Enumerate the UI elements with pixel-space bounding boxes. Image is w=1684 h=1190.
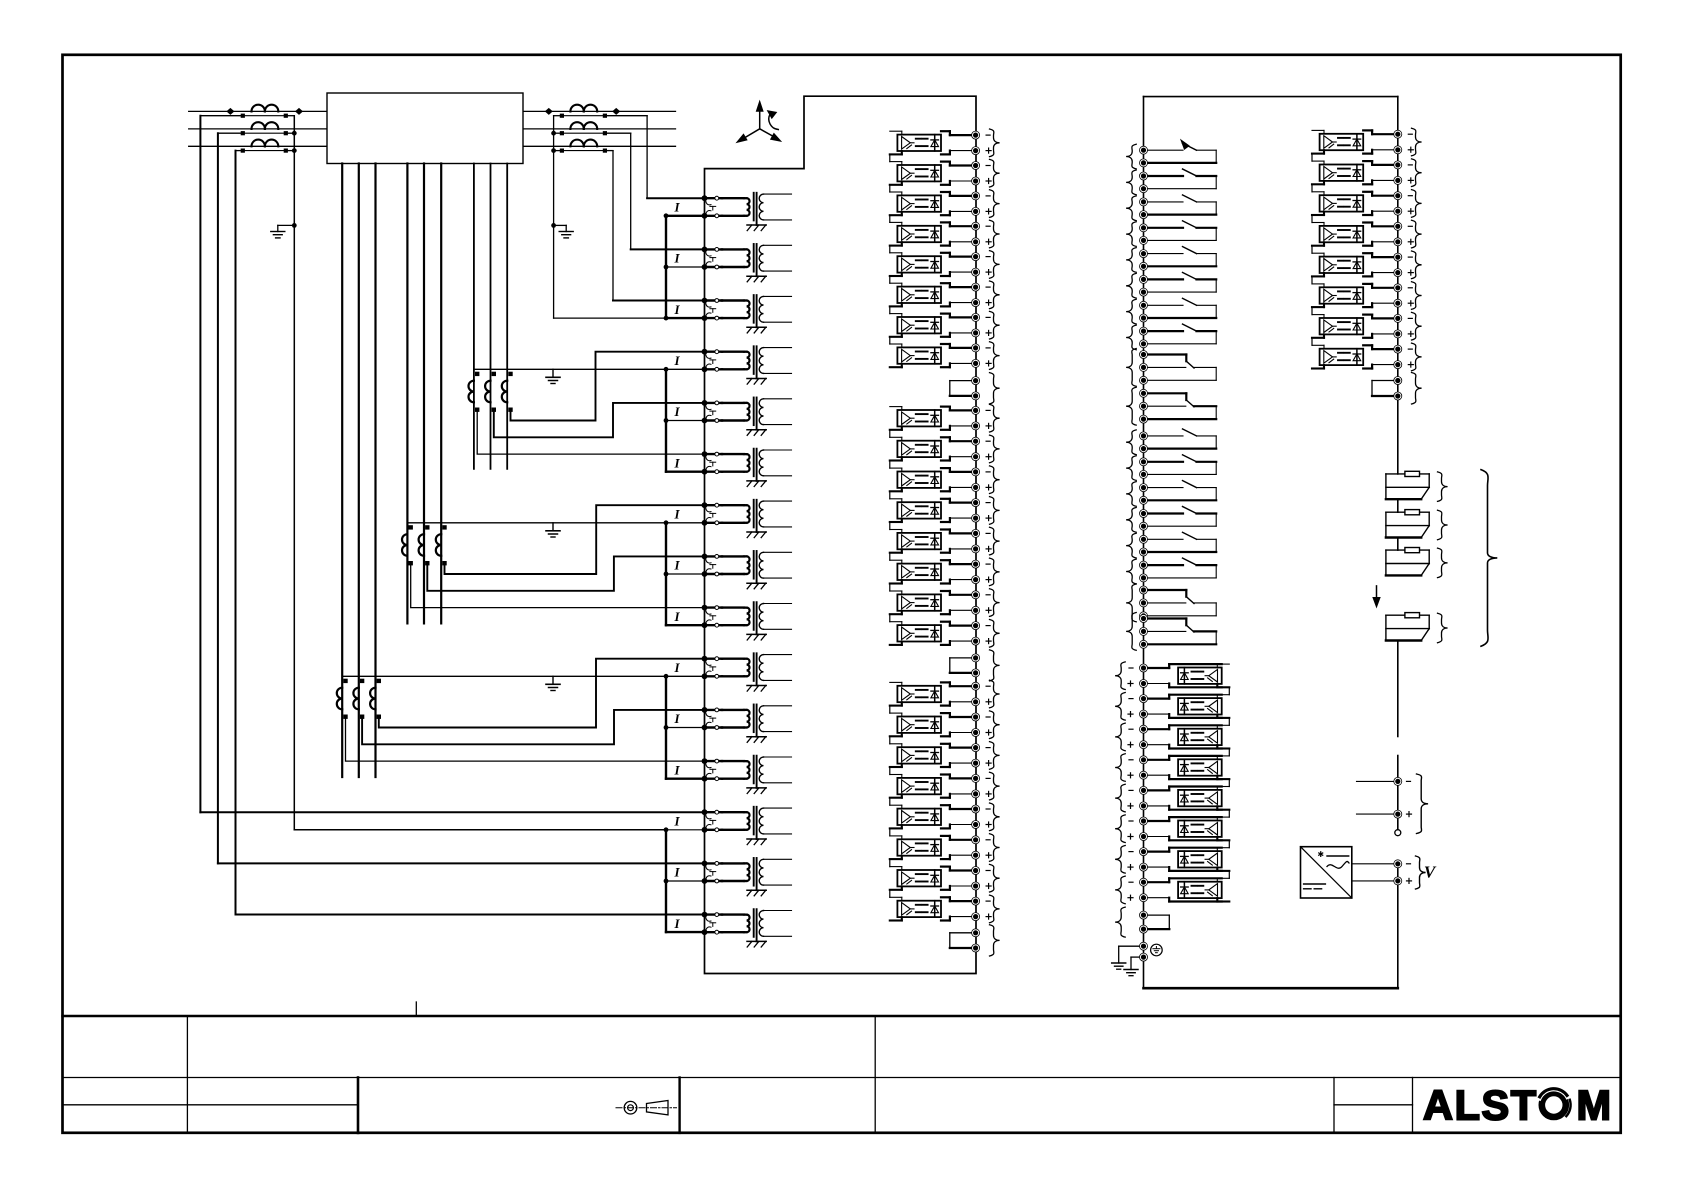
opto input R2.8 <box>1312 345 1413 369</box>
title divider <box>874 1016 876 1133</box>
brace <box>1115 723 1125 751</box>
svg-text:I: I <box>673 609 680 624</box>
wire link <box>889 154 891 161</box>
wire ctA-rowCtop <box>346 717 705 761</box>
svg-text:M: M <box>1577 1082 1612 1129</box>
opto input R2.6 <box>1312 284 1413 307</box>
title sub line <box>1334 1104 1413 1106</box>
tertiary CT b <box>419 525 430 565</box>
opto input L2.7 <box>890 591 991 615</box>
output contact RL11 <box>1140 429 1217 453</box>
opto input R2.7 <box>1312 314 1413 338</box>
brace <box>990 803 1000 831</box>
wire SN down <box>293 116 295 830</box>
winding lead <box>341 164 343 778</box>
wire link <box>889 491 891 499</box>
brace <box>1126 222 1136 247</box>
opto input L1.7 <box>890 313 991 337</box>
brace <box>1126 349 1136 387</box>
wire link <box>889 614 891 622</box>
fold mark <box>415 1002 417 1016</box>
brace <box>990 834 1000 862</box>
bus c4 <box>664 827 705 932</box>
tertiary CT a <box>337 679 348 719</box>
wire I15 top <box>236 914 705 916</box>
high-break contact 4 <box>1386 613 1429 641</box>
brace <box>1412 159 1422 187</box>
power supply unit <box>1301 847 1352 898</box>
tertiary CT b <box>353 679 364 719</box>
changeover contact RL9 <box>1140 351 1217 385</box>
CT Ra <box>570 105 597 112</box>
changeover contact RL17 <box>1140 586 1217 620</box>
brace <box>1412 251 1422 279</box>
brace <box>1412 282 1422 310</box>
case earth terminals <box>1119 942 1148 969</box>
tertiary CT c <box>502 372 513 412</box>
brace <box>990 190 1000 218</box>
wire link <box>1311 154 1313 162</box>
junction <box>292 148 297 153</box>
opto input L2.8 <box>890 622 991 646</box>
wire link <box>889 337 891 344</box>
terminal loop <box>1372 377 1402 401</box>
group brace <box>1481 470 1497 647</box>
wire I13 bottom/neutral <box>294 829 666 831</box>
arrow <box>1373 586 1380 607</box>
title divider <box>1412 1078 1414 1133</box>
svg-text:I: I <box>673 762 680 777</box>
bus <box>664 523 705 625</box>
output contact RL13 <box>1140 481 1217 505</box>
current input transformer I13 <box>673 807 791 845</box>
brace <box>1126 533 1136 558</box>
brace <box>1115 907 1125 937</box>
opto input L3.1 <box>890 682 991 706</box>
brace <box>1126 144 1136 169</box>
brace <box>990 251 1000 279</box>
output contact RL3 <box>1140 195 1217 219</box>
brace <box>990 864 1000 892</box>
wire I1 top lead <box>647 197 704 199</box>
wire link <box>889 306 891 313</box>
brace <box>1438 548 1448 578</box>
brace <box>1115 784 1125 812</box>
opto input R1.3 <box>1128 725 1229 749</box>
brace <box>990 925 1000 956</box>
brace <box>1126 196 1136 221</box>
wire link <box>889 461 891 469</box>
opto input R1.7 <box>1128 848 1229 872</box>
brace <box>1412 220 1422 248</box>
output contact RL14 <box>1140 507 1217 531</box>
wire link <box>889 553 891 561</box>
output contact RL15 <box>1140 532 1217 556</box>
tertiary CT c <box>436 525 447 565</box>
title divider <box>1333 1078 1335 1133</box>
phase C busbar left <box>189 145 327 147</box>
svg-text:ALST: ALST <box>1423 1082 1538 1129</box>
wire I2 top lead <box>631 248 705 250</box>
title divider <box>357 1078 360 1133</box>
svg-text:I: I <box>673 558 680 573</box>
opto input L1.5 <box>890 253 991 277</box>
wire link <box>889 430 891 438</box>
title block top <box>63 1015 1621 1017</box>
opto input L1.3 <box>890 192 991 216</box>
current input transformer I4 <box>673 346 791 384</box>
opto input L1.6 <box>890 283 991 307</box>
output contact RL4 <box>1140 221 1217 245</box>
bus c0 <box>664 213 705 320</box>
current input transformer I5 <box>673 398 791 436</box>
brace <box>990 711 1000 739</box>
brace <box>1126 584 1136 622</box>
svg-text:I: I <box>673 251 680 266</box>
svg-text:I: I <box>673 507 680 522</box>
phase B busbar right <box>523 128 676 130</box>
output contact RL1 <box>1140 140 1217 167</box>
brace <box>1126 325 1136 350</box>
junction <box>292 223 297 228</box>
wire ctC-rowAtop <box>511 352 705 421</box>
opto input R1.8 <box>1128 878 1229 902</box>
ground <box>546 523 560 537</box>
wire ctB-rowBtop <box>494 403 705 437</box>
wire link <box>889 828 891 836</box>
junction <box>551 131 556 136</box>
output contact RL12 <box>1140 455 1217 479</box>
wire to I2 <box>630 133 632 249</box>
wire ctA-rowCtop <box>411 563 705 607</box>
brace <box>990 680 1000 708</box>
brace <box>990 772 1000 800</box>
wire link <box>1311 338 1313 346</box>
junction <box>551 148 556 153</box>
opto input R1.2 <box>1128 695 1229 719</box>
tertiary CT c <box>370 679 381 719</box>
terminal loop <box>950 929 980 952</box>
CT Rb secondary taps <box>554 131 631 135</box>
brace <box>1412 128 1422 156</box>
changeover contact RL10 <box>1140 389 1217 423</box>
current input transformer I15 <box>673 909 791 947</box>
opto input L2.3 <box>890 468 991 492</box>
opto input L2.6 <box>890 560 991 584</box>
winding lead <box>358 164 360 778</box>
brace <box>1126 613 1136 651</box>
terminal <box>1395 830 1401 836</box>
wire link <box>889 736 891 744</box>
brace <box>1115 876 1125 904</box>
junction <box>551 223 556 228</box>
title divider <box>186 1016 188 1133</box>
brace <box>1412 312 1422 340</box>
wire link <box>889 185 891 192</box>
current input transformer I7 <box>673 500 791 538</box>
ground G1 <box>271 225 295 238</box>
brace <box>1417 774 1429 834</box>
opto input R2.5 <box>1312 253 1413 277</box>
winding lead <box>374 164 376 778</box>
brace <box>1115 815 1125 843</box>
CT Rc secondary taps <box>554 149 613 153</box>
output contact RL8 <box>1140 324 1217 348</box>
current input transformer I9 <box>673 602 791 640</box>
ALSTOM logo <box>1423 1082 1611 1129</box>
node <box>295 108 303 115</box>
svg-text:✱: ✱ <box>1317 850 1324 859</box>
phase C busbar right <box>523 145 676 147</box>
opto input R2.2 <box>1312 161 1413 185</box>
wire link <box>1228 687 1230 694</box>
neutral return c0 <box>554 317 666 319</box>
svg-text:I: I <box>673 916 680 931</box>
wire to I1 <box>646 116 648 199</box>
wire link <box>1228 840 1230 847</box>
ground <box>1124 970 1138 976</box>
terminal loop <box>1140 911 1170 933</box>
relay 2 right edge <box>1397 97 1399 989</box>
node <box>612 108 620 115</box>
wire link <box>1228 810 1230 817</box>
tertiary CT a <box>402 525 413 565</box>
brace <box>990 650 1000 681</box>
brace <box>990 558 1000 586</box>
high-break contact 2 <box>1386 510 1429 538</box>
brace <box>1115 754 1125 782</box>
brace <box>990 311 1000 339</box>
tertiary CT b <box>485 372 496 412</box>
wire ctC-rowAtop <box>379 659 705 728</box>
wire ctA-rowCtop <box>477 410 704 454</box>
relay 2 case <box>1144 97 1398 989</box>
opto input L3.5 <box>890 805 991 829</box>
CT Lc <box>252 140 279 147</box>
bus <box>664 676 705 778</box>
high-break contact 3 <box>1386 548 1429 576</box>
ground <box>546 676 560 690</box>
terminal loop <box>950 654 980 677</box>
opto input R2.4 <box>1312 222 1413 246</box>
brace <box>1126 273 1136 298</box>
brace <box>990 742 1000 770</box>
wire ctB-rowBtop <box>362 710 704 744</box>
opto input L3.4 <box>890 774 991 798</box>
brace <box>990 281 1000 309</box>
wire link <box>1228 779 1230 786</box>
projection symbol <box>616 1101 677 1115</box>
brace <box>990 466 1000 494</box>
wire I14 top <box>218 862 705 864</box>
brace <box>990 220 1000 248</box>
brace <box>990 129 1000 157</box>
opto input L1.2 <box>890 162 991 186</box>
opto input L2.1 <box>890 406 991 430</box>
current input transformer I11 <box>673 705 791 743</box>
wire link <box>889 276 891 283</box>
output contact RL7 <box>1140 298 1217 322</box>
title row line <box>63 1077 1621 1079</box>
opto input R1.6 <box>1128 817 1229 841</box>
current input transformer I2 <box>673 244 791 282</box>
wire link <box>889 890 891 898</box>
opto input R1.4 <box>1128 756 1229 779</box>
output contact RL6 <box>1140 272 1217 296</box>
brace <box>990 527 1000 555</box>
winding lead <box>406 164 408 624</box>
svg-text:I: I <box>673 404 680 419</box>
opto input R1.5 <box>1128 786 1229 810</box>
CT Rb <box>570 122 597 129</box>
wire link <box>889 584 891 592</box>
junction <box>292 131 297 136</box>
brace <box>1126 508 1136 533</box>
wire RN down <box>553 116 555 318</box>
opto input L2.5 <box>890 529 991 553</box>
brace <box>1412 373 1422 405</box>
wire link <box>1311 215 1313 223</box>
opto input L1.4 <box>890 222 991 246</box>
wire link <box>889 246 891 253</box>
brace <box>1438 472 1448 502</box>
ground <box>546 369 560 383</box>
svg-text:I: I <box>673 455 680 470</box>
supply wires <box>1352 860 1412 885</box>
wire S1 down <box>199 116 201 813</box>
current input transformer I14 <box>673 858 791 896</box>
opto input L3.6 <box>890 836 991 859</box>
winding lead <box>473 164 475 469</box>
wire link <box>889 215 891 222</box>
svg-text:I: I <box>673 865 680 880</box>
high-break contact 1 <box>1386 471 1429 499</box>
brace <box>1416 856 1426 889</box>
winding lead <box>506 164 508 469</box>
wire link <box>889 767 891 775</box>
neutral bus <box>474 367 705 372</box>
brace <box>990 342 1000 370</box>
svg-text:I: I <box>673 353 680 368</box>
ground <box>1112 963 1126 969</box>
changeover contact RL18 <box>1140 615 1217 649</box>
output contact RL16 <box>1140 558 1217 582</box>
wire S3 down <box>235 151 237 915</box>
winding lead <box>490 164 492 469</box>
phase A busbar left <box>189 110 327 112</box>
opto input R2.3 <box>1312 192 1413 216</box>
opto input L3.2 <box>890 713 991 737</box>
node <box>226 108 234 115</box>
brace <box>990 404 1000 432</box>
opto input L1.1 <box>890 131 991 155</box>
brace <box>1126 387 1136 425</box>
CT La <box>252 105 279 112</box>
brace <box>1126 299 1136 324</box>
brace <box>1126 430 1136 455</box>
brace <box>1115 693 1125 721</box>
current input transformer I3 <box>673 295 791 333</box>
neutral bus <box>342 674 704 679</box>
brace <box>1126 559 1136 584</box>
brace <box>990 497 1000 525</box>
wire ctC-rowAtop <box>445 505 705 574</box>
CT Lb secondary taps <box>218 131 294 135</box>
wire I1 bottom lead <box>666 215 705 217</box>
brace <box>1126 482 1136 507</box>
wire I13 top <box>200 811 704 813</box>
brace <box>1412 190 1422 218</box>
brace <box>990 620 1000 648</box>
svg-text:I: I <box>673 200 680 215</box>
brace <box>990 435 1000 463</box>
opto input L3.7 <box>890 867 991 891</box>
brace <box>990 589 1000 617</box>
current input transformer I8 <box>673 551 791 589</box>
svg-text:I: I <box>673 711 680 726</box>
tertiary CT a <box>468 372 479 412</box>
bus <box>664 369 705 471</box>
phase-rotation symbol <box>737 101 781 142</box>
opto input L3.8 <box>890 897 991 921</box>
wire link <box>1311 246 1313 254</box>
svg-text:I: I <box>673 660 680 675</box>
phase B busbar left <box>189 128 327 130</box>
wire link <box>889 798 891 806</box>
brace <box>1438 510 1448 540</box>
opto input L3.3 <box>890 744 991 768</box>
relay 1 case <box>705 96 977 973</box>
winding lead <box>440 164 442 624</box>
brace <box>990 373 1000 404</box>
wire link <box>1228 749 1230 756</box>
current input transformer I6 <box>673 449 791 487</box>
title divider <box>678 1078 680 1133</box>
protective earth symbol <box>1151 944 1163 956</box>
opto input R1.1 <box>1128 664 1229 688</box>
brace <box>1412 343 1422 371</box>
phase A busbar right <box>523 110 676 112</box>
transformer block T1 <box>327 93 523 164</box>
wire link <box>1311 276 1313 284</box>
wire link <box>1311 307 1313 315</box>
wire link <box>889 859 891 867</box>
brace <box>1126 456 1136 481</box>
svg-text:I: I <box>673 302 680 317</box>
output contact RL5 <box>1140 247 1217 271</box>
neutral bus <box>407 520 704 525</box>
brace <box>1115 662 1125 690</box>
wire S2 down <box>217 133 219 863</box>
brace <box>990 895 1000 923</box>
wire link <box>1311 184 1313 192</box>
wire link <box>889 706 891 714</box>
opto input L1.8 <box>890 344 991 368</box>
opto input L2.4 <box>890 499 991 522</box>
CT Rc <box>570 140 597 147</box>
wire link <box>889 522 891 530</box>
CT Ra secondary taps <box>554 114 648 118</box>
field voltage terminals <box>1357 777 1412 818</box>
brace <box>1126 170 1136 195</box>
brace <box>1126 248 1136 273</box>
wire ctB-rowBtop <box>427 556 704 590</box>
winding lead <box>423 164 425 624</box>
node <box>545 108 553 115</box>
terminal loop <box>950 377 980 400</box>
ground G2 <box>554 225 574 238</box>
CT Lb <box>252 122 279 129</box>
